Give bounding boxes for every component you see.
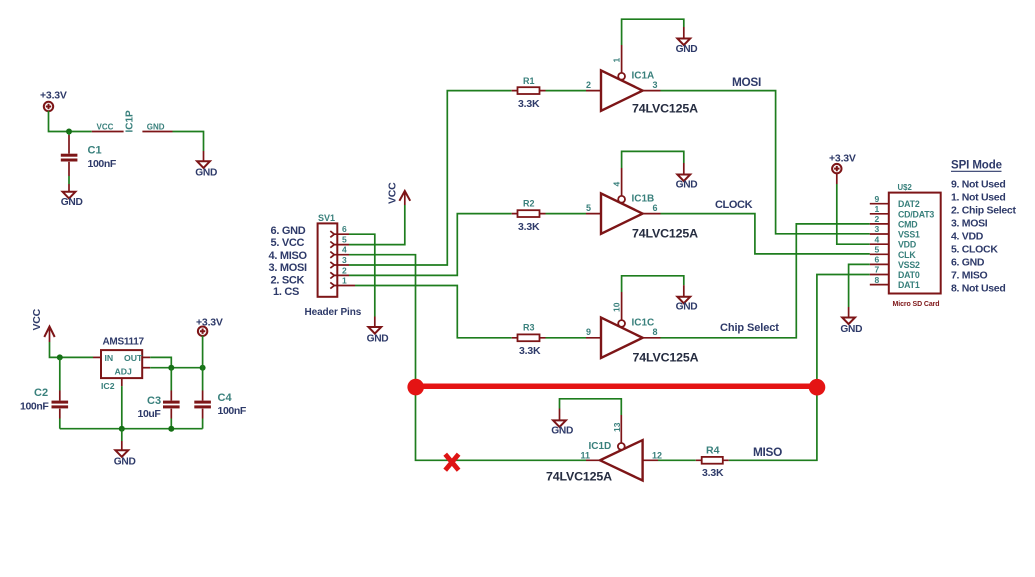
svg-text:GND: GND [840, 324, 862, 335]
svg-text:5. CLOCK: 5. CLOCK [951, 244, 998, 256]
wire ADJ down [121, 386, 123, 429]
SPI Mode table [951, 160, 1016, 295]
svg-text:3: 3 [342, 255, 347, 265]
svg-text:1. Not Used: 1. Not Used [951, 192, 1005, 204]
junction node (C4 / +3.3V tap) [200, 365, 206, 371]
capacitor C3 10uF [138, 368, 180, 429]
power pin IC1P GND [142, 123, 172, 132]
svg-text:IC1C: IC1C [632, 318, 655, 329]
svg-text:9: 9 [586, 327, 591, 337]
svg-text:GND: GND [114, 456, 136, 467]
svg-text:VCC: VCC [387, 182, 399, 204]
annotation red highlight line [407, 379, 825, 396]
svg-text:10: 10 [612, 302, 622, 312]
svg-text:C1: C1 [88, 145, 102, 157]
svg-text:GND: GND [676, 302, 698, 313]
svg-text:7: 7 [875, 265, 880, 275]
wire pin2 to R2 [349, 214, 512, 276]
svg-text:C3: C3 [147, 395, 161, 407]
wire pin4 MISO low side [349, 255, 586, 461]
ground (IC1B enable) [676, 163, 698, 190]
capacitor C4 100nF [194, 368, 247, 429]
wire GND pin to ground [173, 132, 204, 152]
svg-text:1. CS: 1. CS [273, 286, 299, 298]
svg-text:2. Chip Select: 2. Chip Select [951, 205, 1016, 217]
wire +3.3V to VDD [837, 184, 870, 244]
svg-text:+3.3V: +3.3V [829, 153, 856, 165]
svg-text:IC1P: IC1P [125, 110, 136, 133]
svg-text:VSS2: VSS2 [898, 260, 920, 270]
svg-text:3.3K: 3.3K [518, 98, 540, 110]
svg-text:MISO: MISO [753, 445, 782, 459]
wire node to C1 [68, 132, 70, 136]
svg-text:3.3K: 3.3K [702, 467, 724, 479]
supply +3.3V (SD card) [829, 153, 856, 185]
annotation X mark [445, 454, 458, 470]
wire +3.3V to node [49, 111, 92, 132]
svg-text:GND: GND [367, 333, 389, 344]
op-amp buffer IC1B [586, 182, 698, 241]
svg-text:4: 4 [875, 234, 880, 244]
regulator IC2 AMS1117 [93, 337, 150, 392]
wire IC1C enable to ground [621, 292, 623, 320]
junction node (C3 bottom) [168, 426, 174, 432]
connector U$2 Micro SD Card [870, 183, 941, 308]
junction node (C3 tap) [168, 365, 174, 371]
resistor R2 3.3K [512, 199, 546, 234]
svg-text:2: 2 [586, 80, 591, 90]
svg-text:100nF: 100nF [88, 158, 117, 170]
pin list text [269, 225, 308, 298]
svg-text:1: 1 [342, 276, 347, 286]
wire R3 to IC1C [546, 337, 587, 339]
ground (right of IC1P) [195, 151, 217, 179]
op-amp buffer IC1A [586, 58, 698, 116]
svg-text:U$2: U$2 [898, 183, 913, 192]
ground (IC1D enable) [551, 409, 573, 437]
svg-text:IC1D: IC1D [589, 441, 612, 452]
wire Chip Select net [661, 224, 870, 338]
ground (SD card VSS2) [840, 307, 862, 335]
svg-text:CLOCK: CLOCK [715, 199, 753, 211]
op-amp buffer IC1D [546, 422, 662, 483]
wire CLOCK net [661, 214, 870, 254]
svg-text:SV1: SV1 [318, 213, 335, 223]
svg-text:ADJ: ADJ [115, 367, 133, 377]
svg-text:6: 6 [342, 224, 347, 234]
supply VCC (regulator input) [31, 308, 55, 342]
svg-text:74LVC125A: 74LVC125A [632, 227, 698, 241]
svg-text:GND: GND [551, 425, 573, 436]
svg-text:9. Not Used: 9. Not Used [951, 179, 1005, 191]
svg-text:5: 5 [342, 235, 347, 245]
svg-text:GND: GND [676, 44, 698, 55]
svg-text:74LVC125A: 74LVC125A [632, 102, 698, 116]
svg-text:5. VCC: 5. VCC [271, 237, 305, 249]
svg-text:CLK: CLK [898, 250, 916, 260]
svg-text:IC2: IC2 [101, 381, 115, 391]
ground (regulator) [114, 429, 136, 468]
svg-text:DAT2: DAT2 [898, 199, 920, 209]
svg-text:6: 6 [875, 255, 880, 265]
ground (below C1) [61, 184, 83, 208]
svg-text:MOSI: MOSI [732, 75, 761, 89]
svg-text:3: 3 [653, 80, 658, 90]
svg-text:12: 12 [652, 450, 662, 460]
svg-text:10uF: 10uF [138, 408, 162, 420]
capacitor C1 100nF [61, 135, 117, 176]
svg-text:OUT: OUT [124, 353, 143, 363]
wire pin3 to R1 [349, 91, 512, 265]
svg-text:2: 2 [875, 214, 880, 224]
wire IC1B enable to ground [621, 168, 623, 196]
svg-text:SPI Mode: SPI Mode [951, 160, 1002, 172]
svg-text:6. GND: 6. GND [951, 257, 985, 269]
svg-text:GND: GND [61, 197, 83, 208]
svg-text:VCC: VCC [31, 308, 43, 330]
svg-text:4: 4 [612, 182, 622, 187]
ground (IC1A enable) [676, 27, 698, 55]
svg-text:VDD: VDD [898, 240, 916, 250]
svg-text:GND: GND [676, 179, 698, 190]
op-amp buffer IC1C [586, 302, 699, 364]
wire OUT branch down [150, 357, 171, 367]
svg-text:GND: GND [195, 168, 217, 179]
resistor R1 3.3K [512, 76, 546, 110]
wire VSS2 to ground [849, 264, 870, 307]
svg-text:6. GND: 6. GND [271, 225, 306, 237]
svg-text:+3.3V: +3.3V [40, 90, 67, 102]
wire IC1D input to R4 [658, 459, 696, 461]
svg-text:R1: R1 [523, 76, 535, 86]
wire R1 to IC1A [546, 90, 587, 92]
svg-text:4. VDD: 4. VDD [951, 231, 984, 243]
svg-text:1: 1 [875, 204, 880, 214]
svg-text:IN: IN [105, 353, 114, 363]
svg-text:R4: R4 [706, 445, 720, 457]
supply +3.3V (top-left) [40, 90, 67, 112]
svg-text:CMD: CMD [898, 219, 917, 229]
wire R2 to IC1B [546, 213, 587, 215]
wire VCC to IN [50, 342, 94, 357]
svg-text:100nF: 100nF [218, 405, 247, 417]
svg-text:Header Pins: Header Pins [305, 307, 362, 318]
svg-text:5: 5 [875, 245, 880, 255]
svg-text:Chip Select: Chip Select [720, 322, 779, 334]
wire IC1A enable to ground [621, 45, 623, 73]
svg-text:4. MISO: 4. MISO [269, 250, 308, 262]
wire pin5 to VCC [349, 205, 405, 245]
wire pin6 to ground [349, 234, 375, 316]
svg-text:1: 1 [612, 58, 622, 63]
resistor R4 3.3K [696, 445, 729, 480]
junction node [66, 129, 72, 135]
svg-text:VSS1: VSS1 [898, 230, 920, 240]
connector SV1 [318, 213, 355, 297]
ground (SV1 pin 6) [367, 317, 389, 345]
svg-text:DAT1: DAT1 [898, 280, 920, 290]
svg-text:3.3K: 3.3K [519, 345, 541, 357]
svg-text:VCC: VCC [97, 123, 114, 132]
svg-text:IC1A: IC1A [632, 71, 655, 82]
junction node (ADJ/GND) [119, 426, 125, 432]
svg-text:C4: C4 [218, 392, 233, 404]
wire output rail [150, 367, 202, 369]
svg-text:DAT0: DAT0 [898, 270, 920, 280]
ground (IC1C enable) [676, 285, 698, 312]
wire ground rail [60, 428, 203, 430]
wire C1 to ground [68, 176, 70, 184]
svg-text:CD/DAT3: CD/DAT3 [898, 209, 934, 219]
svg-text:3.3K: 3.3K [518, 221, 540, 233]
svg-text:GND: GND [147, 123, 165, 132]
wire MISO high side [729, 275, 870, 461]
svg-text:2: 2 [342, 265, 347, 275]
wire IC1D enable to ground [620, 415, 622, 443]
junction node (C2 tap) [57, 354, 63, 360]
svg-text:11: 11 [581, 450, 591, 460]
svg-text:C2: C2 [34, 387, 48, 399]
svg-text:R3: R3 [523, 323, 535, 333]
svg-text:7. MISO: 7. MISO [951, 270, 988, 282]
svg-text:3. MOSI: 3. MOSI [951, 218, 988, 230]
svg-text:8. Not Used: 8. Not Used [951, 283, 1005, 295]
wire +3.3V down to rail [202, 336, 204, 368]
svg-text:AMS1117: AMS1117 [103, 337, 145, 348]
svg-text:74LVC125A: 74LVC125A [546, 470, 612, 484]
resistor R3 3.3K [512, 323, 546, 358]
svg-text:4: 4 [342, 245, 347, 255]
svg-text:8: 8 [875, 275, 880, 285]
power pin IC1P VCC [92, 123, 124, 132]
svg-text:2. SCK: 2. SCK [271, 275, 305, 287]
svg-text:9: 9 [875, 194, 880, 204]
svg-text:3: 3 [875, 224, 880, 234]
supply +3.3V (regulator output) [196, 317, 223, 336]
svg-text:100nF: 100nF [20, 401, 49, 413]
svg-text:IC1B: IC1B [632, 194, 655, 205]
capacitor C2 100nF [20, 357, 68, 428]
supply VCC (SV1 pin 5) [387, 182, 411, 205]
svg-text:Micro SD Card: Micro SD Card [893, 301, 940, 308]
svg-text:3. MOSI: 3. MOSI [269, 262, 307, 274]
svg-text:74LVC125A: 74LVC125A [633, 351, 699, 365]
wire MOSI net [661, 91, 870, 234]
svg-text:8: 8 [653, 327, 658, 337]
svg-text:5: 5 [586, 203, 591, 213]
svg-text:6: 6 [653, 203, 658, 213]
svg-text:R2: R2 [523, 199, 535, 209]
wire pin1 to R3 [355, 286, 512, 338]
